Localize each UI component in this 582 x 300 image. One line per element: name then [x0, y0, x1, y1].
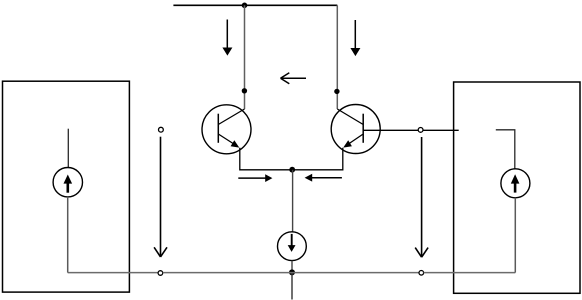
wire left collector drop — [244, 5, 246, 109]
wire Q2 base lead — [363, 129, 418, 131]
current direction arrow left (down) — [222, 20, 232, 56]
wire bottom rail left — [68, 272, 158, 274]
wire bottom stub — [291, 272, 293, 299]
wire left box stub — [67, 129, 69, 168]
wire right collector drop — [336, 5, 338, 109]
wire left source to rail — [67, 197, 69, 273]
terminal bottom right — [419, 271, 424, 276]
current direction arrow emitter left (right-pointing) — [238, 174, 272, 182]
current source right — [501, 169, 530, 198]
wire top rail — [173, 4, 337, 6]
transistor Q1 — [202, 105, 251, 154]
wire tail source to bottom node — [291, 261, 293, 273]
node bottom junction — [289, 269, 295, 275]
voltage arrow right (down, open head) — [415, 137, 428, 257]
voltage arrow left (down, open head) — [154, 137, 167, 257]
current direction arrow emitter right (left-pointing) — [305, 174, 342, 182]
wire Q2 emitter lead — [292, 148, 343, 170]
wire Q1 emitter lead — [240, 148, 292, 170]
node left collector — [242, 88, 247, 93]
wire bottom rail center — [163, 272, 419, 274]
terminal base right — [418, 127, 423, 132]
terminal input left — [159, 127, 164, 132]
current direction arrow right (down) — [350, 20, 360, 56]
wire base terminal into right box — [423, 129, 459, 131]
wire bottom rail right — [424, 272, 516, 274]
wire emitter to tail source — [292, 170, 294, 232]
current source left — [53, 168, 82, 197]
node right collector — [334, 89, 339, 94]
transistor Q2 — [331, 105, 380, 154]
right source box — [454, 82, 580, 293]
left source box — [3, 81, 130, 292]
current direction arrow middle (left, open head) — [281, 73, 307, 84]
terminal bottom left — [158, 271, 163, 276]
wire right box stub — [496, 130, 515, 169]
current source I (tail) — [278, 232, 307, 261]
wire right source to rail — [514, 198, 516, 273]
node top junction — [242, 3, 248, 9]
node emitter junction — [289, 167, 295, 173]
